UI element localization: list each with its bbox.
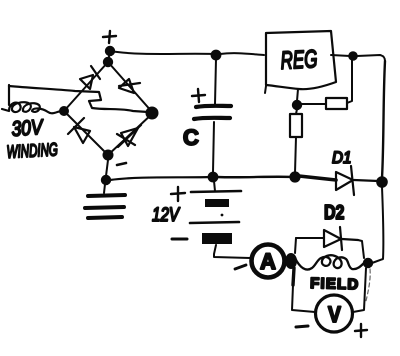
inductor FIELD coil	[295, 255, 364, 269]
node bottom rail left	[102, 176, 110, 184]
resistor R1 vertical	[290, 114, 302, 137]
svg-text:REG: REG	[280, 45, 318, 75]
wire voltmeter right up to field node	[353, 268, 366, 312]
node top rail at capacitor	[212, 51, 221, 60]
battery 12V plate 3	[190, 222, 239, 223]
svg-text:WINDING: WINDING	[6, 140, 58, 163]
node bottom rail at D1	[290, 172, 299, 181]
wire right rail down to D1	[382, 61, 385, 178]
node right of REG	[349, 52, 357, 60]
wire bridge top stub	[108, 51, 110, 62]
svg-text:V: V	[328, 303, 341, 327]
svg-text:D1: D1	[332, 148, 352, 167]
diode bridge bottom-left	[68, 118, 90, 143]
bridge arm wire top-right	[108, 62, 153, 113]
battery top stub	[214, 181, 215, 191]
svg-text:D2: D2	[324, 201, 344, 223]
label minus bridge bottom	[117, 163, 126, 165]
diode bridge bottom-right	[117, 125, 141, 147]
node bridge top upper	[106, 47, 114, 55]
svg-text:A: A	[260, 249, 276, 274]
regulator REG corner tail	[265, 86, 266, 93]
bridge arm wire left-top	[64, 62, 108, 111]
ground bar 2	[85, 207, 124, 208]
wire up to D2 branch	[295, 238, 296, 253]
wire node to horizontal resistor	[301, 103, 326, 105]
node field right	[364, 259, 372, 267]
node bridge top	[104, 58, 112, 66]
capacitor C bottom wire	[213, 122, 214, 172]
bridge arm wire bottom-right	[108, 113, 153, 155]
resistor R2 horizontal	[326, 98, 347, 109]
label plus capacitor	[192, 89, 205, 102]
winding W1 coil loops	[2, 102, 61, 113]
wire top right corner	[357, 55, 385, 61]
wire node to vertical resistor	[296, 109, 297, 114]
wire top rail cap node to REG	[220, 53, 264, 55]
diode D2	[324, 227, 358, 250]
battery 12V plate 2	[205, 199, 229, 207]
svg-text:C: C	[183, 125, 199, 150]
label minus ammeter	[235, 265, 246, 269]
node bottom rail at capacitor/battery	[209, 173, 218, 182]
label plus battery	[171, 187, 185, 201]
label plus voltmeter	[355, 324, 367, 337]
wire battery to ammeter	[214, 245, 250, 258]
capacitor C top plate	[196, 106, 231, 107]
svg-text:12V: 12V	[152, 203, 180, 225]
wire bottom rail left segment	[110, 177, 210, 180]
wire bridge bottom to lower node	[106, 160, 108, 176]
ground bar 1	[88, 195, 125, 196]
wire bottom rail right segment	[217, 176, 293, 179]
wire ammeter node down to voltmeter	[293, 268, 294, 285]
wire REG right to node	[331, 55, 350, 56]
node bridge right	[147, 108, 158, 119]
wire REG bottom stub	[297, 89, 298, 101]
node below REG	[293, 101, 301, 109]
ammeter A	[252, 245, 285, 278]
capacitor C bottom plate	[194, 118, 230, 119]
ground bar 3	[88, 217, 122, 218]
battery 12V plate 4	[202, 233, 232, 244]
ink speck near battery	[221, 214, 224, 217]
node D1 right	[377, 177, 387, 187]
label plus bridge top	[103, 31, 116, 43]
diode D1	[299, 166, 378, 195]
wire top rail bridge to cap node	[110, 51, 213, 54]
wire right rail D1 to field node	[372, 187, 383, 263]
diode bridge top-left	[80, 66, 100, 89]
node right of ammeter	[285, 253, 297, 269]
wire R1 down to bottom rail	[295, 137, 296, 173]
winding W1 left vertical lead	[9, 85, 12, 106]
capacitor C top wire	[215, 59, 216, 104]
battery 12V plate 1	[191, 191, 241, 192]
svg-text:30V: 30V	[11, 116, 45, 141]
label minus voltmeter	[296, 326, 308, 327]
node bridge bottom	[104, 151, 113, 160]
ground wire stub	[104, 184, 105, 193]
bridge arm wire left-bottom	[64, 111, 108, 155]
regulator REG box	[266, 31, 336, 89]
label minus battery	[172, 238, 187, 241]
diode bridge top-right	[119, 79, 140, 93]
wire R2 to vertical up	[347, 58, 352, 103]
voltmeter V	[316, 295, 353, 332]
node bridge left	[60, 107, 68, 115]
wire D2 right corner down	[358, 240, 364, 258]
wire D2 left segment	[296, 237, 324, 239]
wire faint sketchy line below field node	[366, 269, 370, 301]
winding W1 (30V) top lead wire	[9, 86, 148, 112]
svg-text:FIELD: FIELD	[310, 275, 360, 293]
